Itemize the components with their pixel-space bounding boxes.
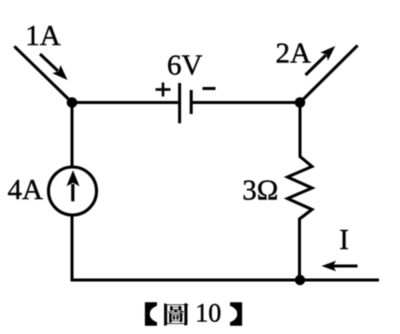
caption: CJK character tu (figure 10 caption) — [164, 303, 188, 326]
wire: bottom horizontal — [71, 279, 379, 282]
wire: left vertical upper — [71, 103, 74, 168]
svg-text:1A: 1A — [25, 20, 61, 52]
svg-text:2A: 2A — [276, 37, 312, 69]
node: top-right junction — [295, 97, 306, 108]
current arrow I — [322, 261, 358, 271]
wire: top-right external lead (2A branch) — [300, 45, 358, 102]
battery V1 positive plate (long) — [178, 83, 181, 123]
node: top-left junction — [67, 97, 78, 108]
resistor R1 3ohm zigzag — [288, 157, 313, 220]
current arrow 2A — [306, 46, 336, 75]
caption: left lenticular bracket — [145, 302, 157, 326]
wire: right vertical lower — [298, 219, 301, 282]
caption: right lenticular bracket — [230, 302, 242, 326]
battery V1 negative plate (short) — [190, 90, 193, 114]
wire: left vertical lower — [71, 215, 74, 282]
node: bottom junction — [295, 275, 305, 285]
current source I1 4A circle — [49, 167, 97, 215]
wire: top horizontal right segment — [192, 101, 300, 104]
svg-text:10: 10 — [195, 299, 221, 328]
current arrow 1A — [40, 54, 68, 80]
svg-text:4A: 4A — [8, 174, 44, 206]
battery plus sign — [156, 83, 171, 97]
wire: top horizontal left segment — [72, 101, 178, 104]
svg-text:3Ω: 3Ω — [242, 174, 278, 206]
wire: right vertical upper — [299, 103, 302, 158]
wire: top-left external lead (1A branch) — [14, 46, 72, 102]
svg-text:6V: 6V — [167, 50, 203, 82]
current source arrow (up) — [67, 170, 80, 201]
battery minus sign — [203, 87, 216, 90]
svg-text:I: I — [339, 224, 349, 256]
